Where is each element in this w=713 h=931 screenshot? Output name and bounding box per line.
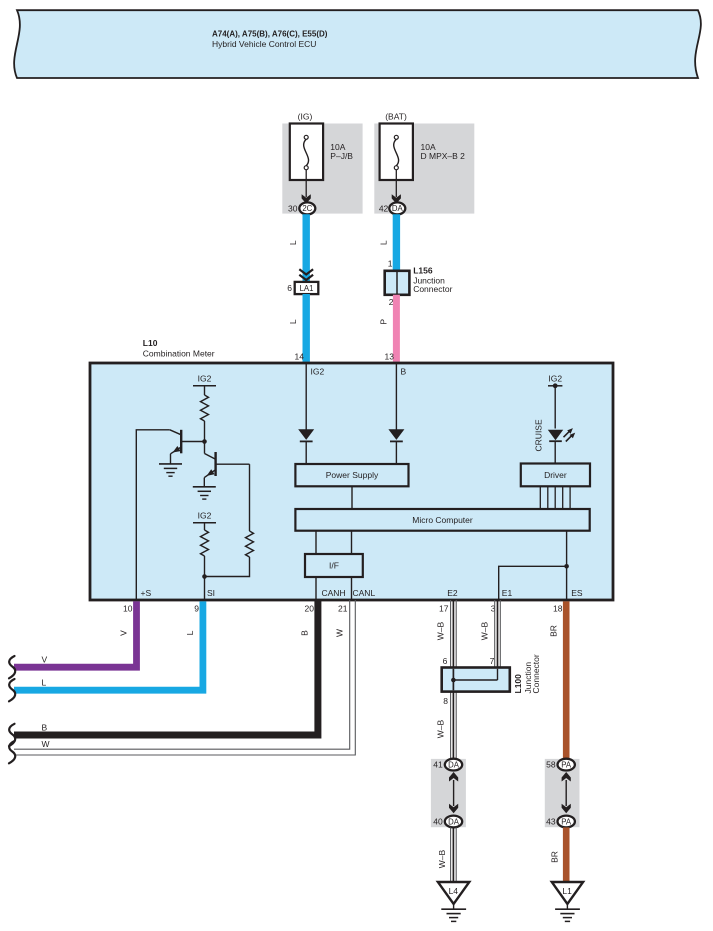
break symbol L wire (9, 679, 15, 701)
svg-text:L: L (185, 630, 195, 635)
wire I/F to pin CANH (315, 577, 317, 600)
svg-text:L: L (288, 319, 298, 324)
fuse F1 10A P-J/B (290, 124, 323, 181)
wire IG2 to LED (554, 386, 556, 429)
ground G1 (159, 464, 182, 476)
driver block (521, 464, 590, 487)
wire W white from pin 21 (14, 600, 355, 755)
svg-text:21: 21 (338, 604, 348, 614)
svg-text:A74(A), A75(B), A76(C), E55(D): A74(A), A75(B), A76(C), E55(D) (212, 30, 328, 39)
power supply block (295, 464, 408, 486)
internal wire from pin 14 to diode (305, 363, 307, 430)
svg-text:L10: L10 (143, 338, 158, 348)
connector LA1 (295, 282, 319, 294)
wire I/F to pin CANL (351, 577, 353, 600)
resistor R1 (201, 395, 209, 421)
resistor R3 (246, 531, 254, 557)
svg-text:L: L (379, 240, 389, 245)
svg-text:Driver: Driver (544, 470, 567, 480)
wire L blue from 2C to LA1 (303, 214, 310, 283)
chevron arrows above LA1 (299, 269, 313, 280)
svg-text:40: 40 (433, 817, 443, 827)
svg-text:E2: E2 (447, 588, 458, 598)
svg-text:BR: BR (550, 851, 560, 863)
combination meter body L10 (90, 363, 613, 600)
svg-text:P–J/B: P–J/B (330, 151, 353, 161)
svg-text:L4: L4 (449, 886, 459, 896)
svg-text:+S: +S (141, 588, 152, 598)
svg-text:Connector: Connector (413, 284, 452, 294)
svg-text:18: 18 (553, 604, 563, 614)
connector oval PA 58 (558, 759, 575, 771)
L100 name label rotated (513, 654, 541, 693)
micro computer block (295, 509, 589, 531)
ground symbol L1 (555, 904, 580, 922)
wire L blue from pin 9 (14, 601, 203, 690)
svg-text:L: L (42, 678, 47, 688)
junction connector L156 (385, 271, 410, 295)
svg-text:D MPX–B 2: D MPX–B 2 (421, 151, 466, 161)
svg-text:W: W (42, 739, 50, 749)
wire W-B from pin 3 (E1) (495, 600, 501, 668)
svg-text:W–B: W–B (480, 621, 490, 640)
svg-text:W: W (335, 629, 345, 637)
svg-text:IG2: IG2 (548, 374, 562, 384)
svg-text:W–B: W–B (436, 719, 446, 738)
node B junction dot (202, 574, 207, 579)
internal wire from pin 13 to diode (395, 363, 397, 430)
svg-text:L1: L1 (562, 886, 572, 896)
wire R3 to node B (205, 557, 250, 577)
svg-text:42: 42 (379, 204, 389, 214)
svg-text:(IG): (IG) (298, 112, 313, 122)
svg-text:BR: BR (549, 625, 559, 637)
wire W-B from DA 40 to ground L4 (451, 827, 457, 882)
svg-text:L156: L156 (413, 266, 433, 276)
ground connector triangle L4 (438, 882, 469, 904)
svg-text:B: B (42, 723, 48, 733)
svg-text:8: 8 (443, 696, 448, 706)
diode D2 (388, 429, 404, 441)
transistor Q1 (170, 430, 205, 454)
L156 name label (413, 266, 452, 295)
svg-text:DA: DA (392, 204, 404, 213)
svg-text:W–B: W–B (436, 621, 446, 640)
wire L blue from DA to L156 (393, 214, 400, 271)
svg-text:E1: E1 (502, 588, 513, 598)
svg-text:W–B: W–B (437, 849, 447, 868)
svg-text:Combination Meter: Combination Meter (143, 349, 215, 359)
svg-text:B: B (300, 630, 310, 636)
svg-text:Hybrid Vehicle Control ECU: Hybrid Vehicle Control ECU (212, 39, 316, 49)
wire node C to ES pin (566, 566, 568, 600)
svg-text:1: 1 (388, 259, 393, 269)
wire Q2 base down to R3 (249, 464, 251, 531)
svg-text:I/F: I/F (329, 561, 339, 571)
connector oval DA 40 (445, 816, 462, 828)
svg-text:2C: 2C (302, 204, 312, 213)
resistor R2 (201, 530, 209, 556)
svg-text:CANH: CANH (322, 588, 346, 598)
svg-text:L: L (288, 240, 298, 245)
wire micro computer to I/F left (315, 531, 317, 554)
wire Q1 collector to +S rail (136, 430, 170, 600)
fuse F1 value label (330, 142, 353, 161)
junction connector L100 (442, 668, 510, 692)
svg-text:CANL: CANL (353, 588, 376, 598)
wire R2 to SI pin (204, 556, 206, 600)
fuse F2 value label (421, 142, 466, 161)
wire L blue from LA1 to meter pin 14 (303, 294, 310, 362)
arrow into connector 2C (302, 194, 311, 203)
wire W-B from pin 17 (E2) (451, 600, 457, 759)
svg-text:Connector: Connector (531, 654, 541, 693)
connector arrows between DA ovals (449, 772, 458, 813)
svg-text:43: 43 (546, 817, 556, 827)
wire micro computer to node C (566, 531, 568, 567)
IG2 power symbol left (193, 374, 216, 396)
wire B black from pin 20 (14, 600, 318, 735)
wire P pink from L156 to meter pin 13 (393, 295, 400, 362)
L10 name label (143, 338, 215, 359)
svg-text:L100: L100 (513, 674, 523, 694)
svg-text:17: 17 (439, 604, 449, 614)
svg-text:LA1: LA1 (300, 284, 314, 293)
break symbol B wire (9, 724, 15, 746)
IG2 power symbol lower (193, 511, 216, 531)
wire V purple from pin 10 (14, 601, 137, 667)
svg-text:CRUISE: CRUISE (533, 419, 543, 451)
node C junction dot (564, 564, 569, 569)
fuse F2 10A D MPX-B 2 (380, 124, 413, 181)
connector oval DA 41 (445, 759, 462, 771)
wire BR from PA 43 to ground L1 (563, 827, 570, 882)
svg-text:10: 10 (123, 604, 133, 614)
svg-text:IG2: IG2 (311, 367, 325, 377)
svg-text:9: 9 (194, 604, 199, 614)
break symbol V wire (9, 656, 15, 678)
svg-text:7: 7 (490, 656, 495, 666)
svg-text:PA: PA (561, 760, 572, 769)
wire node C to E1 branch (499, 566, 567, 600)
svg-text:SI: SI (207, 588, 215, 598)
svg-text:(BAT): (BAT) (385, 112, 407, 122)
svg-text:DA: DA (448, 817, 460, 826)
wire Q2 emitter to ground (203, 478, 205, 487)
IG2 power symbol right (548, 374, 562, 389)
svg-text:V: V (119, 630, 129, 636)
svg-text:41: 41 (433, 760, 443, 770)
svg-text:58: 58 (546, 760, 556, 770)
wire from diode D1 to power supply (305, 441, 307, 464)
node A junction dot (202, 439, 207, 444)
arrow into connector DA (392, 194, 401, 203)
svg-text:PA: PA (561, 817, 572, 826)
svg-text:6: 6 (443, 656, 448, 666)
wire node A to Q2 (205, 454, 216, 460)
wire micro computer to I/F right (351, 531, 353, 554)
wire power supply to micro computer (351, 486, 353, 509)
transistor Q2 (204, 452, 249, 478)
svg-text:13: 13 (385, 352, 395, 362)
svg-text:20: 20 (305, 604, 315, 614)
LED D3 cruise indicator (548, 428, 575, 441)
gray panel around DA connectors (431, 759, 466, 827)
connector arrows between PA ovals (562, 772, 571, 813)
driver to micro computer bus wires (540, 486, 570, 509)
svg-text:ES: ES (571, 588, 583, 598)
svg-text:IG2: IG2 (198, 374, 212, 384)
svg-text:DA: DA (448, 760, 460, 769)
wire R1 to node A (204, 421, 206, 454)
ground connector triangle L1 (552, 882, 583, 904)
svg-text:Power Supply: Power Supply (326, 470, 379, 480)
wire from diode D2 to power supply (395, 441, 397, 464)
connector oval 2C (299, 202, 315, 214)
svg-text:30: 30 (288, 204, 298, 214)
svg-text:V: V (42, 655, 48, 665)
wire from fuse F1 to connector (305, 170, 307, 197)
svg-text:6: 6 (287, 283, 292, 293)
gray panel around fuse 2 (374, 124, 474, 214)
I/F block (305, 554, 363, 577)
diode D1 (298, 429, 314, 441)
svg-text:14: 14 (295, 352, 305, 362)
wire from fuse F2 to connector (395, 170, 397, 197)
ground symbol L4 (441, 904, 466, 922)
connector oval DA (389, 202, 405, 214)
connector oval PA 43 (558, 816, 575, 828)
ground G2 (193, 487, 216, 499)
wire Q1 emitter to ground (170, 454, 172, 464)
svg-text:B: B (401, 367, 407, 377)
svg-text:Micro Computer: Micro Computer (412, 515, 473, 525)
wire LED to driver (554, 441, 556, 464)
svg-text:P: P (379, 319, 389, 325)
banner title text (212, 30, 328, 50)
wire BR brown from pin 18 (ES) (563, 601, 570, 759)
break symbol W wire (9, 741, 15, 763)
gray panel around PA connectors (545, 759, 580, 827)
gray panel around fuse 1 (282, 124, 362, 214)
svg-text:IG2: IG2 (198, 511, 212, 521)
title banner ribbon (14, 10, 701, 78)
